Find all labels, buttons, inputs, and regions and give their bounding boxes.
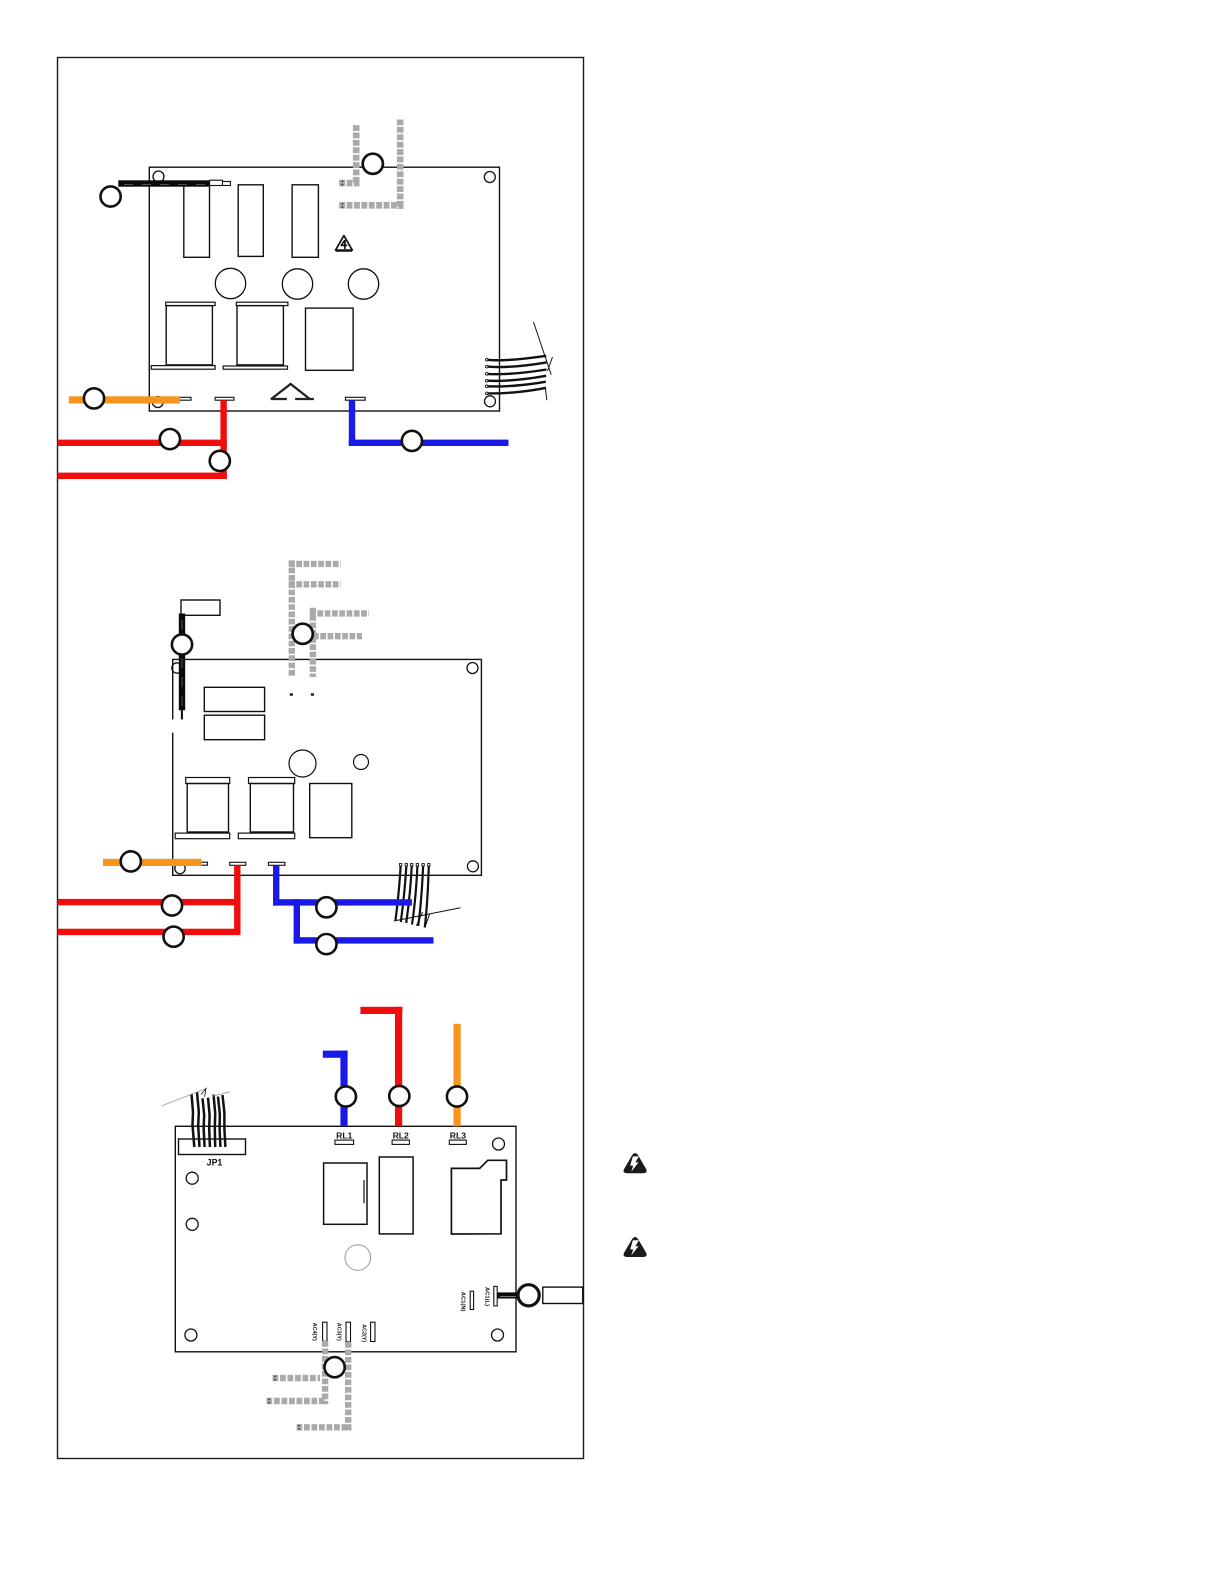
blue wire B2 run 1 bbox=[273, 899, 412, 905]
terminal TB5 bbox=[230, 862, 246, 865]
gray ribbon wire G5 column A bbox=[322, 1341, 328, 1404]
blue wire B3 vertical bbox=[340, 1051, 347, 1127]
callout 16 orange wire bbox=[447, 1086, 467, 1106]
terminal RL3 pad bbox=[449, 1140, 466, 1144]
blue wire B2 run 2 bbox=[294, 937, 434, 943]
terminal RL1 pad bbox=[335, 1140, 354, 1144]
red wire R1 lower run bbox=[58, 473, 227, 479]
module M1 bbox=[306, 308, 354, 370]
svg-text:AC4(Y): AC4(Y) bbox=[311, 1323, 317, 1341]
svg-text:AC2(Y): AC2(Y) bbox=[360, 1324, 366, 1342]
red wire R3 vertical bbox=[395, 1007, 402, 1127]
gray ribbon wire G6 column B bbox=[345, 1342, 351, 1431]
blue wire B2 vertical 1 bbox=[273, 865, 279, 905]
transformer T1 bbox=[151, 302, 215, 369]
relay RL2 body bbox=[379, 1157, 413, 1234]
board U3 outline bbox=[175, 1126, 516, 1352]
terminal AC3 pad bbox=[346, 1322, 351, 1342]
gray ribbon wire G5 row 2 bbox=[267, 1398, 325, 1404]
red wire R2 upper run bbox=[58, 899, 241, 905]
warning icon W1 (electric shock) bbox=[624, 1153, 647, 1173]
callout 9 orange wire bbox=[121, 851, 141, 871]
gray ribbon wire G1 right column bbox=[397, 120, 404, 209]
gray ribbon wire G2 short row bbox=[339, 180, 359, 187]
callout 14 blue wire bbox=[336, 1086, 356, 1106]
gray ribbon wire G4 column bbox=[310, 608, 316, 677]
gray wire pin dots bbox=[268, 1376, 300, 1430]
black wire N2 connector P2 bbox=[181, 600, 220, 615]
terminal AC1N pad bbox=[470, 1291, 473, 1309]
gray ribbon wire G4 row a bbox=[310, 610, 369, 616]
screw hole H12 bbox=[185, 1329, 197, 1341]
screw hole H3 bbox=[485, 396, 496, 407]
note marker triangle 4 bbox=[336, 236, 353, 251]
black wire N1 bbox=[118, 180, 209, 186]
screw hole H5 bbox=[172, 663, 182, 673]
screw hole H6 bbox=[467, 663, 478, 674]
svg-text:AC1(N): AC1(N) bbox=[459, 1292, 465, 1312]
red wire R1 vertical bbox=[220, 400, 226, 479]
callout 12 blue run1 bbox=[316, 897, 336, 917]
AC plug housing bbox=[543, 1287, 583, 1303]
warning icon W2 (electric shock) bbox=[624, 1237, 647, 1257]
callout 11 red lower bbox=[164, 927, 184, 947]
orange wire O2 bbox=[103, 859, 202, 866]
relay K3 bbox=[292, 185, 318, 257]
callout 10 red upper bbox=[162, 895, 182, 915]
capacitor C3 bbox=[348, 269, 378, 299]
terminal TB1 bbox=[180, 397, 192, 400]
callout 3 orange wire bbox=[84, 388, 104, 408]
terminal AC4 pad bbox=[323, 1322, 327, 1341]
screw hole H11 bbox=[186, 1218, 198, 1230]
transformer T4 bbox=[238, 778, 294, 839]
svg-text:JP1: JP1 bbox=[207, 1158, 223, 1168]
relay K1 bbox=[184, 184, 210, 257]
blue wire B1 vertical bbox=[349, 400, 355, 446]
relay K2 bbox=[238, 185, 263, 257]
svg-text:AC1(L): AC1(L) bbox=[483, 1287, 489, 1306]
red wire R1 upper run bbox=[58, 440, 227, 446]
IC block B bbox=[204, 715, 264, 740]
wire harness B2 bbox=[394, 864, 461, 928]
relay RL3 body bbox=[451, 1160, 506, 1234]
gray ribbon wire G3 column bbox=[289, 560, 295, 677]
red wire R2 vertical bbox=[234, 865, 240, 935]
terminal RL2 pad bbox=[392, 1140, 409, 1144]
gray ribbon wire G3 row a bbox=[289, 561, 341, 567]
gray wire G1 connector pins bbox=[342, 203, 344, 208]
capacitor C2 bbox=[282, 269, 312, 299]
capacitor C1 bbox=[215, 268, 245, 298]
gray ribbon wire G2 left column bbox=[353, 125, 360, 184]
screw hole H13 bbox=[492, 1329, 504, 1341]
terminal TB4 bbox=[197, 862, 208, 865]
gray ribbon wire G4 row b bbox=[313, 633, 362, 639]
svg-text:RL3: RL3 bbox=[450, 1131, 466, 1141]
svg-text:RL2: RL2 bbox=[393, 1131, 409, 1141]
callout 1 black wire bbox=[101, 186, 121, 206]
wire harness B3 bbox=[162, 1089, 231, 1148]
wire harness B1 bbox=[486, 322, 553, 400]
callout 5 red lower bbox=[210, 451, 230, 471]
terminal AC1L pad bbox=[494, 1286, 497, 1306]
IC block A bbox=[204, 687, 264, 711]
callout 8 gray wire bbox=[293, 624, 313, 644]
svg-text:AC3(Y): AC3(Y) bbox=[336, 1323, 342, 1341]
capacitor C5 bbox=[354, 755, 369, 770]
callout 2 gray wire bbox=[363, 154, 383, 174]
screw hole H2 bbox=[484, 172, 495, 183]
relay RL1 body bbox=[324, 1163, 367, 1224]
gray ribbon wire G1 bottom row bbox=[339, 202, 403, 209]
screw hole H9 bbox=[493, 1138, 505, 1150]
terminal AC2 pad bbox=[371, 1322, 375, 1341]
buzzer BZ1 bbox=[345, 1245, 371, 1271]
BOARD3 bbox=[162, 1007, 583, 1431]
BOARD2 bbox=[58, 560, 482, 954]
blue wire B1 run bbox=[349, 440, 509, 446]
blue wire B3 top run bbox=[323, 1051, 348, 1058]
terminal TB6 bbox=[268, 862, 285, 865]
connector JP1 bbox=[179, 1139, 246, 1155]
black wire N2 bbox=[179, 614, 185, 720]
terminal TB3 bbox=[345, 397, 365, 400]
red wire R2 lower run bbox=[58, 929, 241, 935]
board U1 outline bbox=[149, 167, 499, 411]
screw hole H10 bbox=[186, 1172, 198, 1184]
capacitor C4 bbox=[289, 750, 316, 777]
screw hole H8 bbox=[175, 863, 185, 873]
callout 7 black wire bbox=[172, 634, 192, 654]
screw hole H1 bbox=[153, 171, 164, 182]
orange wire O3 vertical bbox=[454, 1024, 461, 1127]
transformer T2 bbox=[223, 302, 288, 369]
gray wire pin marks bbox=[290, 693, 314, 696]
svg-text:RL1: RL1 bbox=[336, 1131, 352, 1141]
blue wire B2 vertical 2 bbox=[294, 899, 300, 943]
orange wire O1 bbox=[69, 396, 180, 403]
gray ribbon wire G6 row 3 bbox=[297, 1424, 352, 1430]
transformer T3 bbox=[175, 778, 230, 839]
callout 18 gray wire bbox=[325, 1357, 345, 1377]
callout 13 blue run2 bbox=[316, 934, 336, 954]
gray ribbon wire G5 row 1 bbox=[273, 1375, 321, 1381]
screw hole H7 bbox=[467, 861, 478, 872]
gray ribbon wire G3 row b bbox=[289, 581, 341, 587]
screw hole H4 bbox=[152, 397, 163, 408]
module M2 bbox=[310, 784, 352, 838]
terminal TB2 bbox=[215, 397, 234, 400]
gray wire G2 connector pins bbox=[342, 181, 344, 186]
red wire R3 top run bbox=[360, 1007, 402, 1014]
callout 15 red wire bbox=[389, 1086, 409, 1106]
BOARD1 bbox=[58, 120, 553, 480]
bracket symbol bbox=[271, 384, 314, 399]
page border frame bbox=[58, 58, 584, 1459]
black wire connector P1 bbox=[210, 180, 231, 185]
AC power plug lead bbox=[497, 1292, 517, 1298]
callout 17 AC plug bbox=[518, 1285, 539, 1306]
callout 4 red upper bbox=[160, 429, 180, 449]
board U2 outline bbox=[173, 659, 482, 875]
callout 6 blue wire bbox=[402, 431, 422, 451]
